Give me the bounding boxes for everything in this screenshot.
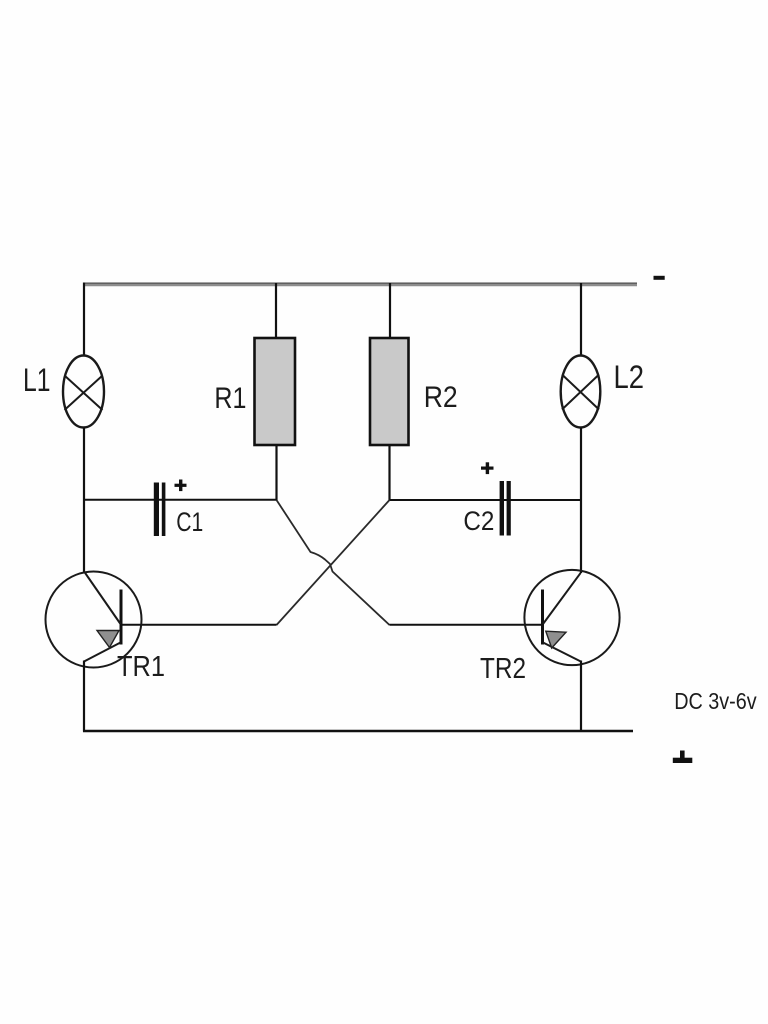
wire: TR1 emitter to bottom rail <box>83 661 85 732</box>
svg-text:C1: C1 <box>176 507 203 537</box>
svg-text:L2: L2 <box>614 359 645 395</box>
resistor R1 <box>255 338 296 445</box>
wire: C2 horizontal <box>390 499 582 501</box>
svg-text:C2: C2 <box>463 506 494 536</box>
wire: R2 bottom to node <box>388 445 390 500</box>
minus terminal label <box>654 276 665 280</box>
bottom rail wire <box>83 730 633 732</box>
wire: R1 bottom to node <box>275 445 277 500</box>
wire: C1 horizontal <box>84 499 277 501</box>
transistor TR2 <box>524 570 619 665</box>
wire: TR1 base horizontal <box>121 624 277 626</box>
wire: rail to lamp L2 <box>580 283 582 357</box>
wire: diagonal from R1 node to TR2 base (with hop) <box>277 500 390 625</box>
svg-text:TR2: TR2 <box>480 653 526 685</box>
resistor R2 <box>370 338 409 445</box>
wire: rail to resistor R1 <box>275 283 277 338</box>
positive terminal symbol <box>673 751 693 764</box>
wire: TR2 base horizontal <box>390 624 543 626</box>
C1 plus polarity mark <box>175 480 187 492</box>
svg-text:R1: R1 <box>214 382 246 415</box>
wire: lamp L1 to TR1 collector <box>83 428 85 574</box>
wire: TR2 emitter to bottom rail <box>580 661 582 732</box>
capacitor C1 <box>154 483 166 537</box>
negative supply rail (top, gray) <box>84 283 637 285</box>
wire: rail to resistor R2 <box>389 283 391 338</box>
wire: rail to lamp L1 <box>83 283 85 357</box>
lamp L2 <box>561 356 601 428</box>
capacitor C2 <box>500 481 511 536</box>
svg-text:DC 3v-6v: DC 3v-6v <box>674 688 757 714</box>
wire: diagonal from R2 node to TR1 base <box>277 500 390 625</box>
lamp L1 <box>63 356 104 428</box>
transistor TR1 <box>46 572 142 668</box>
svg-text:R2: R2 <box>424 381 458 414</box>
C2 plus polarity mark <box>481 462 494 474</box>
wire: lamp L2 to TR2 collector <box>580 428 582 574</box>
svg-text:L1: L1 <box>23 362 51 398</box>
svg-text:TR1: TR1 <box>117 651 165 683</box>
